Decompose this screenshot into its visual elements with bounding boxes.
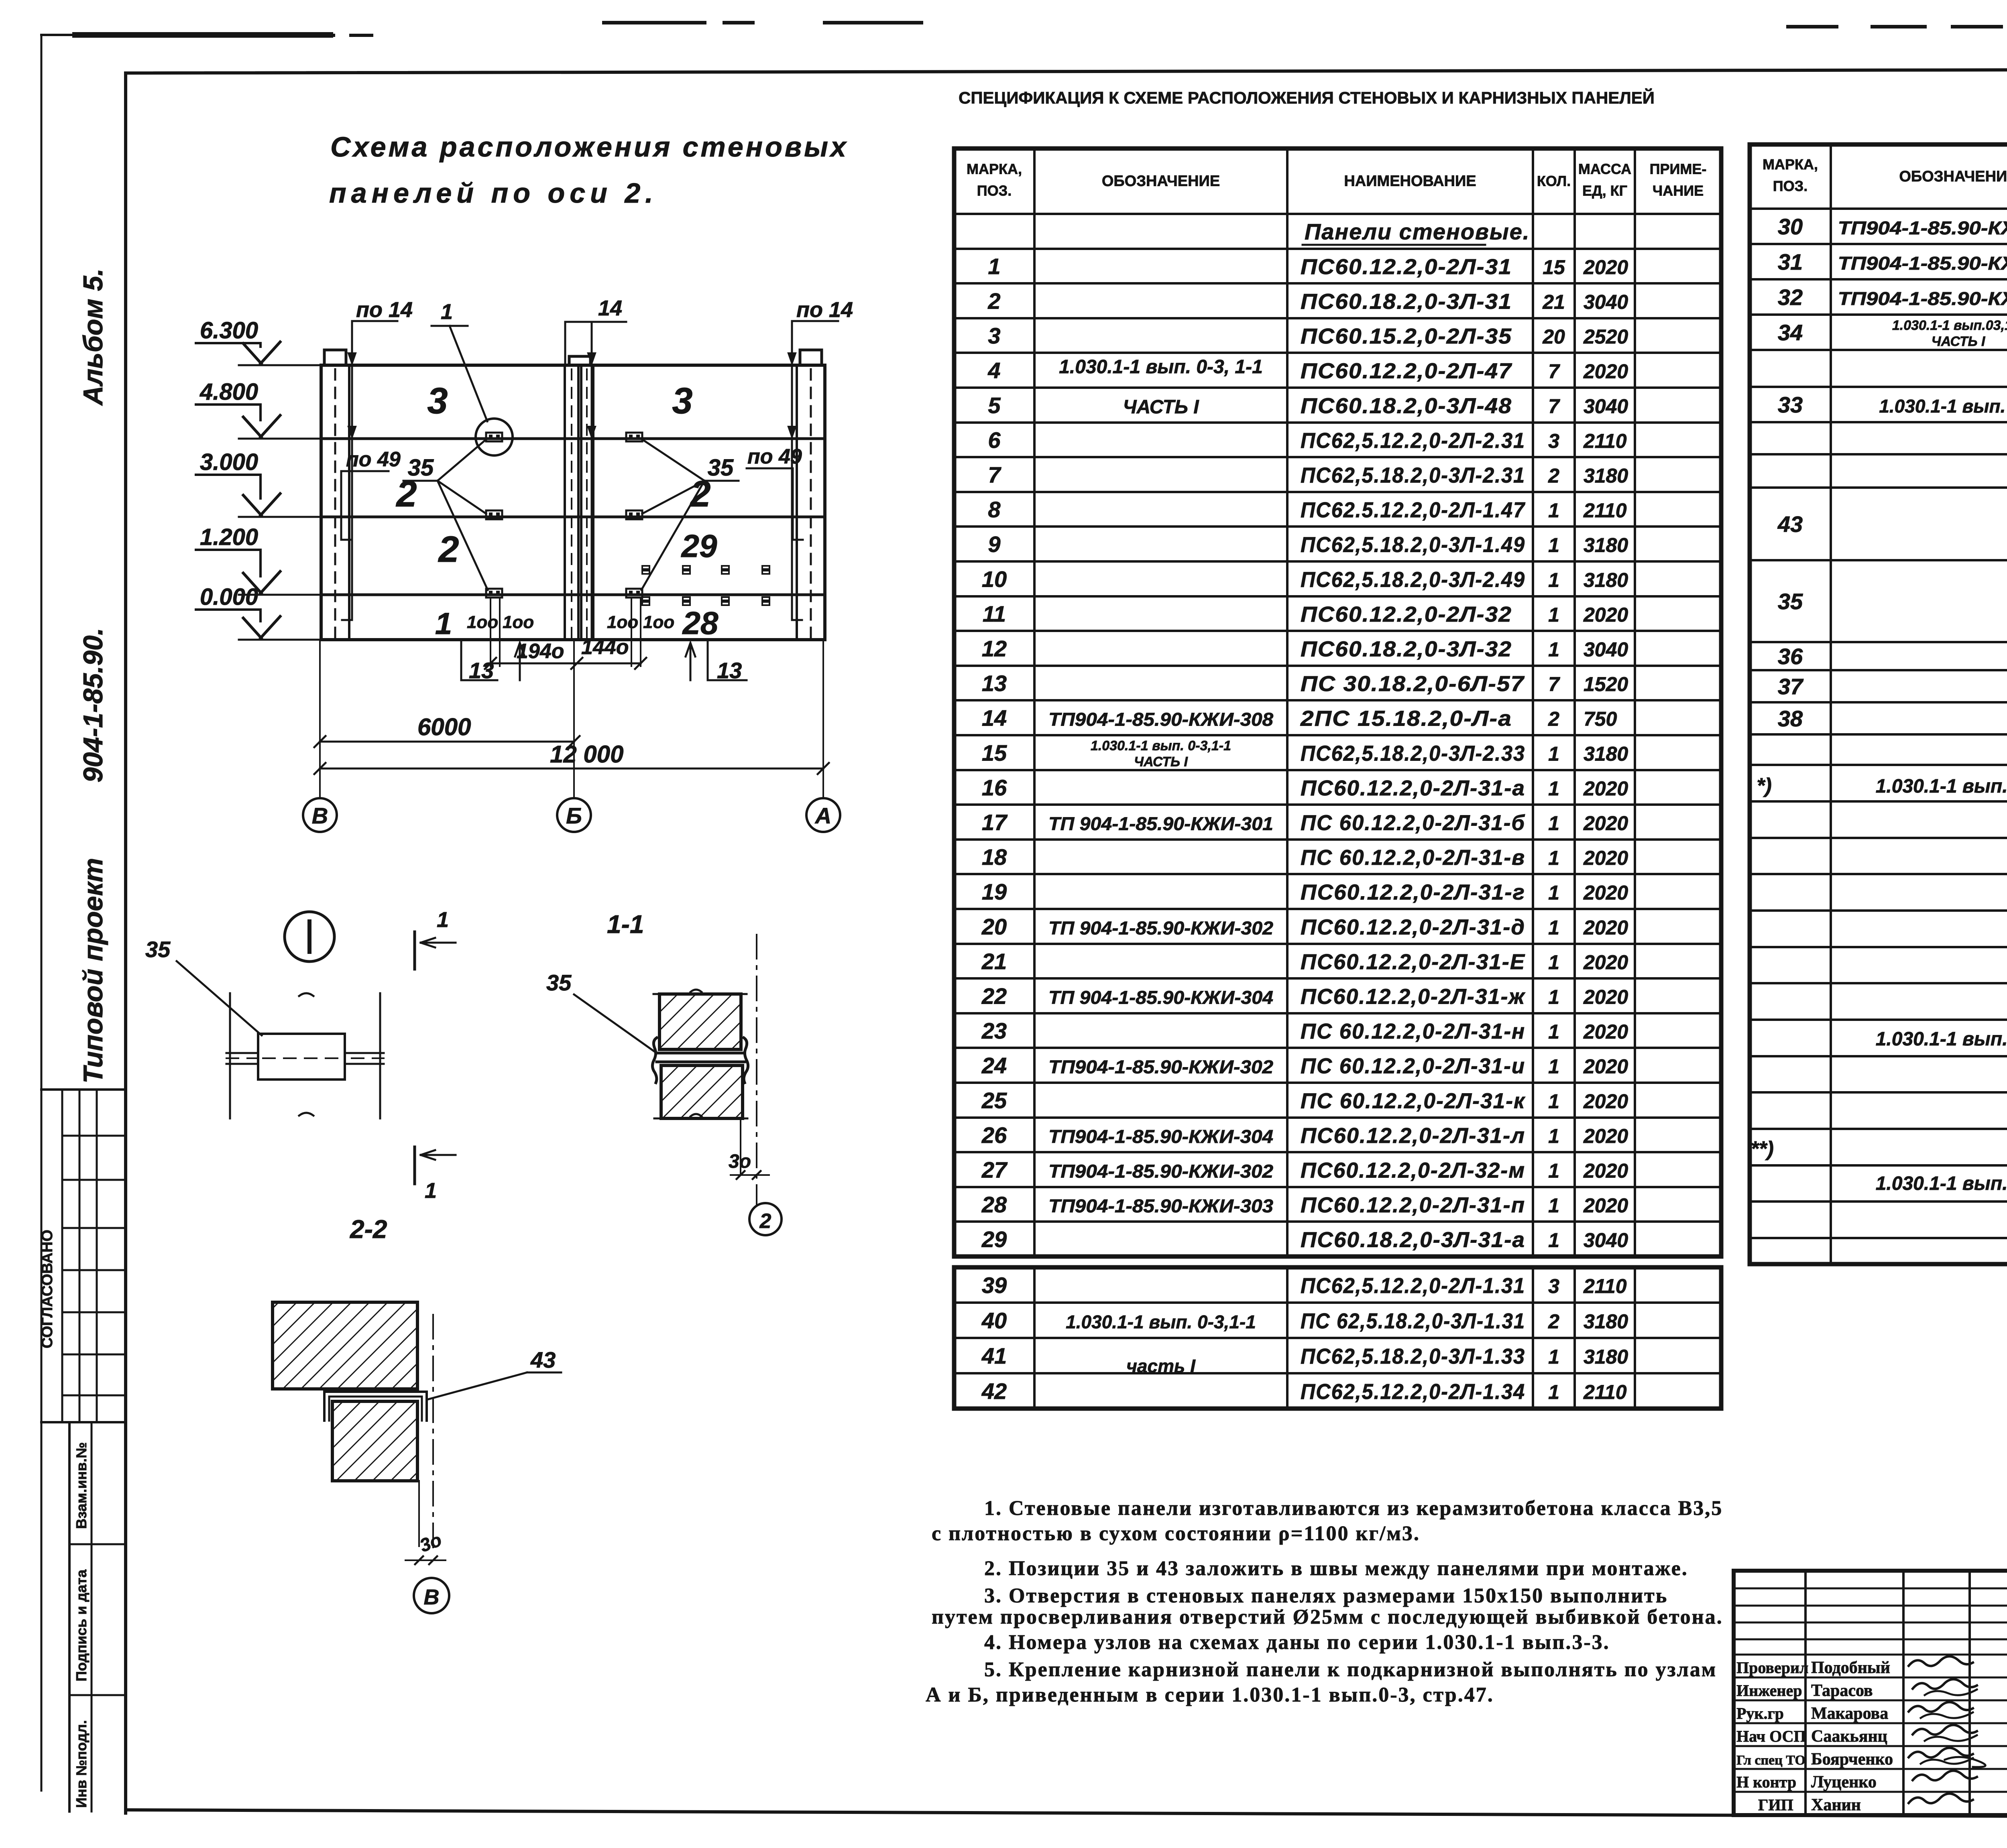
- svg-text:3180: 3180: [1584, 465, 1628, 487]
- svg-text:15: 15: [982, 740, 1007, 766]
- svg-text:ПС 60.12.2,0-2Л-31-в: ПС 60.12.2,0-2Л-31-в: [1301, 846, 1525, 870]
- svg-text:1: 1: [437, 908, 449, 932]
- svg-text:1.030.1-1 вып. 0-3,1-1: 1.030.1-1 вып. 0-3,1-1: [1066, 1311, 1256, 1332]
- svg-text:ПС60.12.2,0-2Л-31-г: ПС60.12.2,0-2Л-31-г: [1301, 880, 1525, 905]
- svg-text:1: 1: [988, 254, 1000, 279]
- svg-text:21: 21: [981, 949, 1007, 974]
- svg-text:1: 1: [435, 607, 452, 641]
- svg-text:1.030.1-1 вып. 4-1: 1.030.1-1 вып. 4-1: [1876, 776, 2007, 797]
- svg-text:1: 1: [1548, 1229, 1559, 1252]
- svg-text:25: 25: [981, 1088, 1007, 1113]
- svg-text:3: 3: [1548, 1275, 1559, 1297]
- svg-text:1. Стеновые панели изготавлива: 1. Стеновые панели изготавливаются из ке…: [984, 1497, 1723, 1520]
- svg-text:ПС60.12.2,0-2Л-31-л: ПС60.12.2,0-2Л-31-л: [1301, 1124, 1525, 1148]
- svg-text:с плотностью в сухом состоянии: с плотностью в сухом состоянии ρ=1100 кг…: [932, 1522, 1420, 1545]
- svg-text:2110: 2110: [1583, 499, 1627, 522]
- svg-text:10: 10: [982, 567, 1007, 592]
- svg-text:1oo: 1oo: [503, 612, 534, 632]
- svg-text:194o: 194o: [517, 640, 564, 663]
- svg-text:1: 1: [1548, 569, 1559, 592]
- svg-text:ТП904-1-85.90-КЖИ-302: ТП904-1-85.90-КЖИ-302: [1048, 1161, 1273, 1182]
- svg-text:1: 1: [1548, 777, 1559, 800]
- svg-text:4.800: 4.800: [199, 379, 258, 405]
- svg-text:6.300: 6.300: [200, 317, 258, 344]
- svg-text:ПС60.15.2,0-2Л-35: ПС60.15.2,0-2Л-35: [1301, 324, 1512, 348]
- svg-text:ПС60.18.2,0-3Л-48: ПС60.18.2,0-3Л-48: [1301, 394, 1512, 418]
- svg-text:1: 1: [1548, 847, 1559, 869]
- svg-text:36: 36: [1778, 644, 1803, 669]
- svg-text:2020: 2020: [1583, 360, 1628, 383]
- svg-text:ТП904-1-85.90-КЖИ-305: ТП904-1-85.90-КЖИ-305: [1838, 218, 2007, 238]
- svg-text:МАССА: МАССА: [1578, 161, 1631, 177]
- svg-text:29: 29: [681, 528, 717, 564]
- svg-text:часть I: часть I: [1126, 1356, 1196, 1376]
- svg-text:2020: 2020: [1583, 1194, 1628, 1217]
- svg-text:26: 26: [981, 1122, 1007, 1148]
- svg-text:ТП904-1-85.90-КЖИ-302: ТП904-1-85.90-КЖИ-302: [1048, 1057, 1273, 1077]
- svg-text:2020: 2020: [1583, 986, 1628, 1008]
- svg-text:37: 37: [1778, 674, 1804, 699]
- svg-text:ПРИМЕ-: ПРИМЕ-: [1650, 161, 1707, 177]
- svg-text:Тарасов: Тарасов: [1811, 1681, 1873, 1700]
- svg-text:СОГЛАСОВАНО: СОГЛАСОВАНО: [39, 1230, 56, 1348]
- svg-text:Проверил: Проверил: [1736, 1659, 1808, 1677]
- svg-text:ТП904-1-85.90-КЖИ-306: ТП904-1-85.90-КЖИ-306: [1838, 253, 2007, 274]
- svg-text:ПС60.12.2,0-2Л-31-п: ПС60.12.2,0-2Л-31-п: [1301, 1193, 1525, 1217]
- svg-text:ПС62,5.18.2,0-3Л-2.33: ПС62,5.18.2,0-3Л-2.33: [1301, 742, 1525, 766]
- svg-text:по 14: по 14: [796, 298, 853, 322]
- svg-text:1-1: 1-1: [607, 910, 644, 939]
- svg-text:по 14: по 14: [356, 298, 413, 322]
- svg-text:23: 23: [981, 1018, 1007, 1043]
- svg-text:12 000: 12 000: [550, 741, 624, 768]
- svg-text:ПС60.12.2,0-2Л-31-Е: ПС60.12.2,0-2Л-31-Е: [1301, 950, 1525, 974]
- svg-text:ПС60.12.2,0-2Л-32-м: ПС60.12.2,0-2Л-32-м: [1301, 1159, 1525, 1183]
- svg-text:Б: Б: [566, 803, 582, 828]
- svg-text:2020: 2020: [1583, 1055, 1628, 1078]
- svg-text:ПС60.12.2,0-2Л-31-д: ПС60.12.2,0-2Л-31-д: [1301, 915, 1525, 939]
- svg-text:38: 38: [1778, 706, 1803, 731]
- svg-text:1520: 1520: [1584, 673, 1628, 695]
- svg-text:3o: 3o: [729, 1151, 751, 1172]
- svg-text:3: 3: [672, 380, 692, 421]
- svg-text:2020: 2020: [1583, 604, 1628, 626]
- svg-text:1.030.1-1 вып. 0-3: 1.030.1-1 вып. 0-3: [1876, 1173, 2007, 1194]
- svg-text:ПС60.18.2,0-3Л-32: ПС60.18.2,0-3Л-32: [1301, 637, 1512, 661]
- svg-text:2020: 2020: [1583, 882, 1628, 904]
- svg-text:Типовой проект: Типовой проект: [78, 858, 108, 1084]
- svg-text:1: 1: [441, 300, 453, 324]
- svg-text:ПС 60.12.2,0-2Л-31-н: ПС 60.12.2,0-2Л-31-н: [1301, 1019, 1525, 1043]
- svg-text:3. Отверстия в стеновых панеля: 3. Отверстия в стеновых панелях размерам…: [984, 1584, 1668, 1607]
- svg-text:19: 19: [982, 879, 1007, 905]
- svg-text:1: 1: [1548, 1090, 1559, 1113]
- svg-text:11: 11: [983, 601, 1006, 626]
- svg-text:20: 20: [981, 914, 1007, 939]
- svg-text:3: 3: [1548, 430, 1559, 452]
- svg-text:ПС62,5.12.2,0-2Л-1.34: ПС62,5.12.2,0-2Л-1.34: [1301, 1380, 1525, 1404]
- svg-text:1: 1: [1548, 638, 1559, 661]
- svg-text:Луценко: Луценко: [1811, 1773, 1877, 1791]
- svg-text:30: 30: [1778, 214, 1803, 239]
- svg-text:ТП904-1-85.90-КЖИ-303: ТП904-1-85.90-КЖИ-303: [1048, 1195, 1273, 1216]
- svg-text:ТП904-1-85.90-КЖИ-308: ТП904-1-85.90-КЖИ-308: [1048, 709, 1273, 730]
- svg-text:ЧАСТЬ I: ЧАСТЬ I: [1123, 396, 1199, 418]
- svg-text:13: 13: [469, 658, 494, 683]
- svg-text:ПС 60.12.2,0-2Л-31-б: ПС 60.12.2,0-2Л-31-б: [1301, 811, 1525, 835]
- svg-text:904-1-85.90.: 904-1-85.90.: [78, 628, 108, 783]
- svg-text:7: 7: [1548, 395, 1560, 418]
- svg-text:ОБОЗНАЧЕНИЕ: ОБОЗНАЧЕНИЕ: [1102, 173, 1220, 190]
- svg-text:ПС60.12.2,0-2Л-47: ПС60.12.2,0-2Л-47: [1301, 359, 1512, 383]
- svg-text:1: 1: [1548, 1125, 1559, 1147]
- svg-text:ПС 60.12.2,0-2Л-31-и: ПС 60.12.2,0-2Л-31-и: [1301, 1054, 1525, 1078]
- svg-text:1: 1: [1548, 1160, 1559, 1182]
- svg-text:2: 2: [438, 529, 459, 570]
- svg-text:панелей по оси 2.: панелей по оси 2.: [329, 177, 658, 209]
- svg-text:5. Крепление карнизной панели: 5. Крепление карнизной панели к подкарни…: [984, 1658, 1717, 1681]
- svg-text:750: 750: [1584, 708, 1617, 730]
- svg-text:2020: 2020: [1583, 847, 1628, 869]
- svg-text:СПЕЦИФИКАЦИЯ К СХЕМЕ РАСПОЛ: СПЕЦИФИКАЦИЯ К СХЕМЕ РАСПОЛОЖЕНИЯ СТЕНОВ…: [959, 88, 1655, 107]
- svg-text:6000: 6000: [417, 714, 471, 740]
- svg-text:35: 35: [708, 455, 734, 481]
- svg-text:28: 28: [981, 1192, 1007, 1217]
- svg-text:по 49: по 49: [346, 448, 401, 471]
- svg-text:МАРКА,: МАРКА,: [1763, 156, 1818, 173]
- svg-text:Подпись и дата: Подпись и дата: [73, 1569, 90, 1681]
- svg-text:ТП 904-1-85.90-КЖИ-302: ТП 904-1-85.90-КЖИ-302: [1048, 918, 1273, 939]
- svg-text:2110: 2110: [1583, 430, 1627, 452]
- svg-text:1.030.1-1 вып. 0-3, 1-1: 1.030.1-1 вып. 0-3, 1-1: [1059, 356, 1263, 378]
- svg-text:8: 8: [988, 497, 1001, 522]
- svg-text:Ханин: Ханин: [1811, 1796, 1861, 1814]
- svg-text:ПОЗ.: ПОЗ.: [977, 183, 1012, 199]
- svg-text:3180: 3180: [1584, 1346, 1628, 1368]
- svg-text:43: 43: [1777, 512, 1803, 537]
- svg-text:ПС62,5.12.2,0-2Л-1.31: ПС62,5.12.2,0-2Л-1.31: [1301, 1274, 1525, 1298]
- svg-text:13: 13: [982, 671, 1007, 696]
- svg-text:3040: 3040: [1584, 291, 1628, 313]
- svg-text:*): *): [1757, 774, 1772, 797]
- svg-text:МАРКА,: МАРКА,: [967, 161, 1022, 177]
- svg-text:1: 1: [1548, 1381, 1559, 1403]
- svg-text:2: 2: [1548, 465, 1559, 487]
- svg-text:Гл спец ТО: Гл спец ТО: [1736, 1753, 1805, 1768]
- svg-text:Схема расположения стеновых: Схема расположения стеновых: [330, 131, 849, 163]
- svg-text:КОЛ.: КОЛ.: [1537, 173, 1571, 189]
- svg-text:ГИП: ГИП: [1758, 1796, 1793, 1814]
- svg-text:ПС62,5.18.2,0-3Л-2.31: ПС62,5.18.2,0-3Л-2.31: [1301, 464, 1525, 488]
- svg-text:2520: 2520: [1583, 325, 1628, 348]
- svg-text:39: 39: [982, 1273, 1007, 1298]
- svg-text:28: 28: [682, 605, 719, 641]
- svg-text:144o: 144o: [581, 636, 629, 659]
- svg-text:ПС60.12.2,0-2Л-32: ПС60.12.2,0-2Л-32: [1301, 602, 1512, 626]
- svg-text:Панели стеновые.: Панели стеновые.: [1305, 219, 1530, 244]
- svg-text:3180: 3180: [1584, 534, 1628, 557]
- svg-text:2-2: 2-2: [350, 1215, 387, 1244]
- svg-text:7: 7: [1548, 360, 1560, 383]
- svg-text:18: 18: [982, 844, 1007, 870]
- svg-text:ПС62,5.18.2,0-3Л-1.49: ПС62,5.18.2,0-3Л-1.49: [1301, 533, 1525, 557]
- svg-text:14: 14: [598, 296, 622, 320]
- svg-text:5: 5: [988, 393, 1001, 418]
- svg-text:ПС60.18.2,0-3Л-31: ПС60.18.2,0-3Л-31: [1301, 290, 1512, 314]
- svg-text:2020: 2020: [1583, 256, 1628, 279]
- svg-text:Инженер: Инженер: [1736, 1681, 1802, 1700]
- svg-text:6: 6: [988, 427, 1001, 453]
- svg-text:2. Позиции 35 и 43 заложить в: 2. Позиции 35 и 43 заложить в швы между …: [984, 1557, 1688, 1580]
- svg-text:по 49: по 49: [747, 445, 802, 468]
- svg-text:2: 2: [759, 1210, 771, 1233]
- svg-text:3: 3: [988, 323, 1000, 348]
- svg-text:2: 2: [1548, 708, 1559, 730]
- svg-text:29: 29: [981, 1227, 1007, 1252]
- svg-text:40: 40: [981, 1308, 1007, 1333]
- svg-text:путем просверливания отверстий: путем просверливания отверстий Ø25мм с п…: [932, 1606, 1723, 1628]
- svg-text:15: 15: [1543, 256, 1565, 279]
- svg-text:35: 35: [145, 937, 171, 962]
- svg-text:Нач ОСП: Нач ОСП: [1736, 1727, 1806, 1745]
- svg-text:ПС60.12.2,0-2Л-31: ПС60.12.2,0-2Л-31: [1301, 255, 1512, 279]
- svg-text:Н контр: Н контр: [1736, 1773, 1796, 1791]
- svg-text:9: 9: [988, 532, 1000, 557]
- svg-text:Инв №подл.: Инв №подл.: [73, 1720, 90, 1808]
- svg-text:7: 7: [1548, 673, 1560, 695]
- svg-text:20: 20: [1542, 325, 1565, 348]
- svg-text:ПС60.18.2,0-3Л-31-а: ПС60.18.2,0-3Л-31-а: [1301, 1228, 1525, 1252]
- svg-text:3: 3: [427, 380, 448, 421]
- svg-text:ПС62,5.18.2,0-3Л-1.33: ПС62,5.18.2,0-3Л-1.33: [1301, 1344, 1525, 1368]
- svg-text:1: 1: [1548, 951, 1559, 974]
- svg-text:3o: 3o: [417, 1529, 444, 1556]
- svg-text:4. Номера узлов на схемах даны: 4. Номера узлов на схемах даны по серии …: [984, 1631, 1610, 1654]
- svg-text:ЧАСТЬ I: ЧАСТЬ I: [1134, 754, 1188, 770]
- svg-text:ТП904-1-85.90-КЖИ-307: ТП904-1-85.90-КЖИ-307: [1838, 288, 2007, 309]
- svg-text:2020: 2020: [1583, 1090, 1628, 1113]
- svg-text:3040: 3040: [1584, 638, 1628, 661]
- svg-text:2020: 2020: [1583, 1160, 1628, 1182]
- svg-text:2110: 2110: [1583, 1381, 1627, 1403]
- svg-text:Макарова: Макарова: [1811, 1704, 1888, 1723]
- svg-text:1.200: 1.200: [200, 524, 258, 550]
- svg-text:22: 22: [981, 984, 1007, 1009]
- svg-text:16: 16: [982, 775, 1007, 800]
- svg-text:1: 1: [1548, 499, 1559, 522]
- svg-text:14: 14: [982, 705, 1007, 731]
- svg-text:ПС62.5.12.2,0-2Л-1.47: ПС62.5.12.2,0-2Л-1.47: [1301, 498, 1526, 522]
- svg-text:2020: 2020: [1583, 777, 1628, 800]
- svg-text:Альбом 5.: Альбом 5.: [78, 268, 108, 406]
- svg-text:2020: 2020: [1583, 812, 1628, 835]
- svg-text:1oo: 1oo: [467, 612, 498, 632]
- svg-text:2110: 2110: [1583, 1275, 1627, 1297]
- svg-text:А и Б, приведенным в серии 1.0: А и Б, приведенным в серии 1.030.1-1 вып…: [926, 1683, 1494, 1706]
- svg-text:Саакьянц: Саакьянц: [1811, 1727, 1887, 1746]
- svg-text:Рук.гр: Рук.гр: [1736, 1704, 1784, 1722]
- svg-text:1oo: 1oo: [643, 612, 674, 632]
- svg-text:ТП904-1-85.90-КЖИ-304: ТП904-1-85.90-КЖИ-304: [1048, 1126, 1273, 1147]
- svg-text:1: 1: [1548, 604, 1559, 626]
- svg-text:31: 31: [1778, 249, 1803, 274]
- svg-text:34: 34: [1778, 320, 1803, 345]
- svg-text:ПС62,5.12.2,0-2Л-2.31: ПС62,5.12.2,0-2Л-2.31: [1301, 429, 1525, 453]
- svg-text:2ПС 15.18.2,0-Л-а: 2ПС 15.18.2,0-Л-а: [1300, 707, 1512, 731]
- svg-text:2020: 2020: [1583, 951, 1628, 974]
- svg-text:ПС60.12.2,0-2Л-31-ж: ПС60.12.2,0-2Л-31-ж: [1301, 985, 1526, 1009]
- svg-text:А: А: [814, 803, 831, 828]
- svg-text:ТП 904-1-85.90-КЖИ-304: ТП 904-1-85.90-КЖИ-304: [1048, 987, 1273, 1008]
- svg-text:35: 35: [546, 970, 572, 995]
- svg-text:ЕД, КГ: ЕД, КГ: [1582, 183, 1627, 199]
- svg-text:1: 1: [1548, 1194, 1559, 1217]
- svg-text:1: 1: [1548, 534, 1559, 557]
- svg-text:ОБОЗНАЧЕНИЕ: ОБОЗНАЧЕНИЕ: [1899, 168, 2007, 185]
- svg-text:ПС 30.18.2,0-6Л-57: ПС 30.18.2,0-6Л-57: [1301, 672, 1525, 696]
- svg-text:1oo: 1oo: [607, 612, 638, 632]
- svg-text:1: 1: [1548, 812, 1559, 835]
- svg-text:Боярченко: Боярченко: [1811, 1750, 1893, 1769]
- svg-text:3180: 3180: [1584, 743, 1628, 765]
- svg-text:В: В: [312, 803, 328, 828]
- svg-text:2020: 2020: [1583, 917, 1628, 939]
- svg-text:33: 33: [1778, 392, 1803, 417]
- svg-text:Взам.инв.№: Взам.инв.№: [73, 1442, 90, 1529]
- svg-text:13: 13: [717, 658, 742, 683]
- svg-text:ПС60.12.2,0-2Л-31-а: ПС60.12.2,0-2Л-31-а: [1301, 776, 1525, 800]
- svg-text:1.030.1-1 вып.03,1-1: 1.030.1-1 вып.03,1-1: [1892, 318, 2007, 333]
- svg-text:ПОЗ.: ПОЗ.: [1773, 178, 1808, 194]
- svg-text:ЧАНИЕ: ЧАНИЕ: [1653, 183, 1704, 199]
- svg-text:2020: 2020: [1583, 1125, 1628, 1147]
- svg-text:0.000: 0.000: [200, 584, 258, 610]
- svg-text:4: 4: [987, 358, 1000, 383]
- svg-text:32: 32: [1778, 285, 1803, 310]
- svg-text:1: 1: [1548, 917, 1559, 939]
- svg-text:ТП 904-1-85.90-КЖИ-301: ТП 904-1-85.90-КЖИ-301: [1048, 813, 1273, 834]
- svg-text:35: 35: [1778, 589, 1803, 614]
- svg-text:3040: 3040: [1584, 1229, 1628, 1252]
- svg-text:2: 2: [1548, 1310, 1559, 1333]
- svg-text:17: 17: [982, 810, 1008, 835]
- svg-text:1.030.1-1 вып. 2-1: 1.030.1-1 вып. 2-1: [1879, 396, 2007, 417]
- svg-text:21: 21: [1542, 291, 1565, 313]
- svg-text:24: 24: [981, 1053, 1007, 1078]
- svg-text:1: 1: [425, 1179, 437, 1203]
- svg-text:1: 1: [1548, 882, 1559, 904]
- svg-text:3040: 3040: [1584, 395, 1628, 418]
- svg-text:1.030.1-1 вып. 0-3,1-1: 1.030.1-1 вып. 0-3,1-1: [1091, 738, 1231, 754]
- svg-text:3180: 3180: [1584, 1310, 1628, 1333]
- svg-text:41: 41: [981, 1343, 1007, 1368]
- svg-text:7: 7: [988, 462, 1001, 488]
- svg-text:3180: 3180: [1584, 569, 1628, 592]
- svg-text:43: 43: [530, 1347, 556, 1372]
- svg-text:ПС 60.12.2,0-2Л-31-к: ПС 60.12.2,0-2Л-31-к: [1301, 1089, 1526, 1113]
- svg-text:42: 42: [981, 1378, 1007, 1404]
- svg-text:1.030.1-1 вып. 3-3: 1.030.1-1 вып. 3-3: [1876, 1029, 2007, 1050]
- svg-text:В: В: [424, 1585, 440, 1609]
- svg-text:ПС62,5.18.2,0-3Л-2.49: ПС62,5.18.2,0-3Л-2.49: [1301, 568, 1525, 592]
- svg-text:1: 1: [1548, 1021, 1559, 1043]
- svg-text:35: 35: [408, 455, 434, 481]
- svg-text:ПС 62,5.18.2,0-3Л-1.31: ПС 62,5.18.2,0-3Л-1.31: [1301, 1309, 1525, 1333]
- svg-text:1: 1: [1548, 743, 1559, 765]
- svg-text:ЧАСТЬ I: ЧАСТЬ I: [1932, 334, 1986, 349]
- svg-text:3.000: 3.000: [200, 449, 258, 475]
- svg-text:**): **): [1751, 1137, 1774, 1161]
- svg-text:НАИМЕНОВАНИЕ: НАИМЕНОВАНИЕ: [1344, 173, 1476, 190]
- svg-text:2020: 2020: [1583, 1021, 1628, 1043]
- svg-text:1: 1: [1548, 986, 1559, 1008]
- svg-text:27: 27: [981, 1157, 1008, 1183]
- svg-text:1: 1: [1548, 1055, 1559, 1078]
- svg-text:2: 2: [987, 289, 1000, 314]
- svg-text:1: 1: [1548, 1346, 1559, 1368]
- svg-text:12: 12: [982, 636, 1007, 661]
- svg-text:Подобный: Подобный: [1811, 1659, 1890, 1677]
